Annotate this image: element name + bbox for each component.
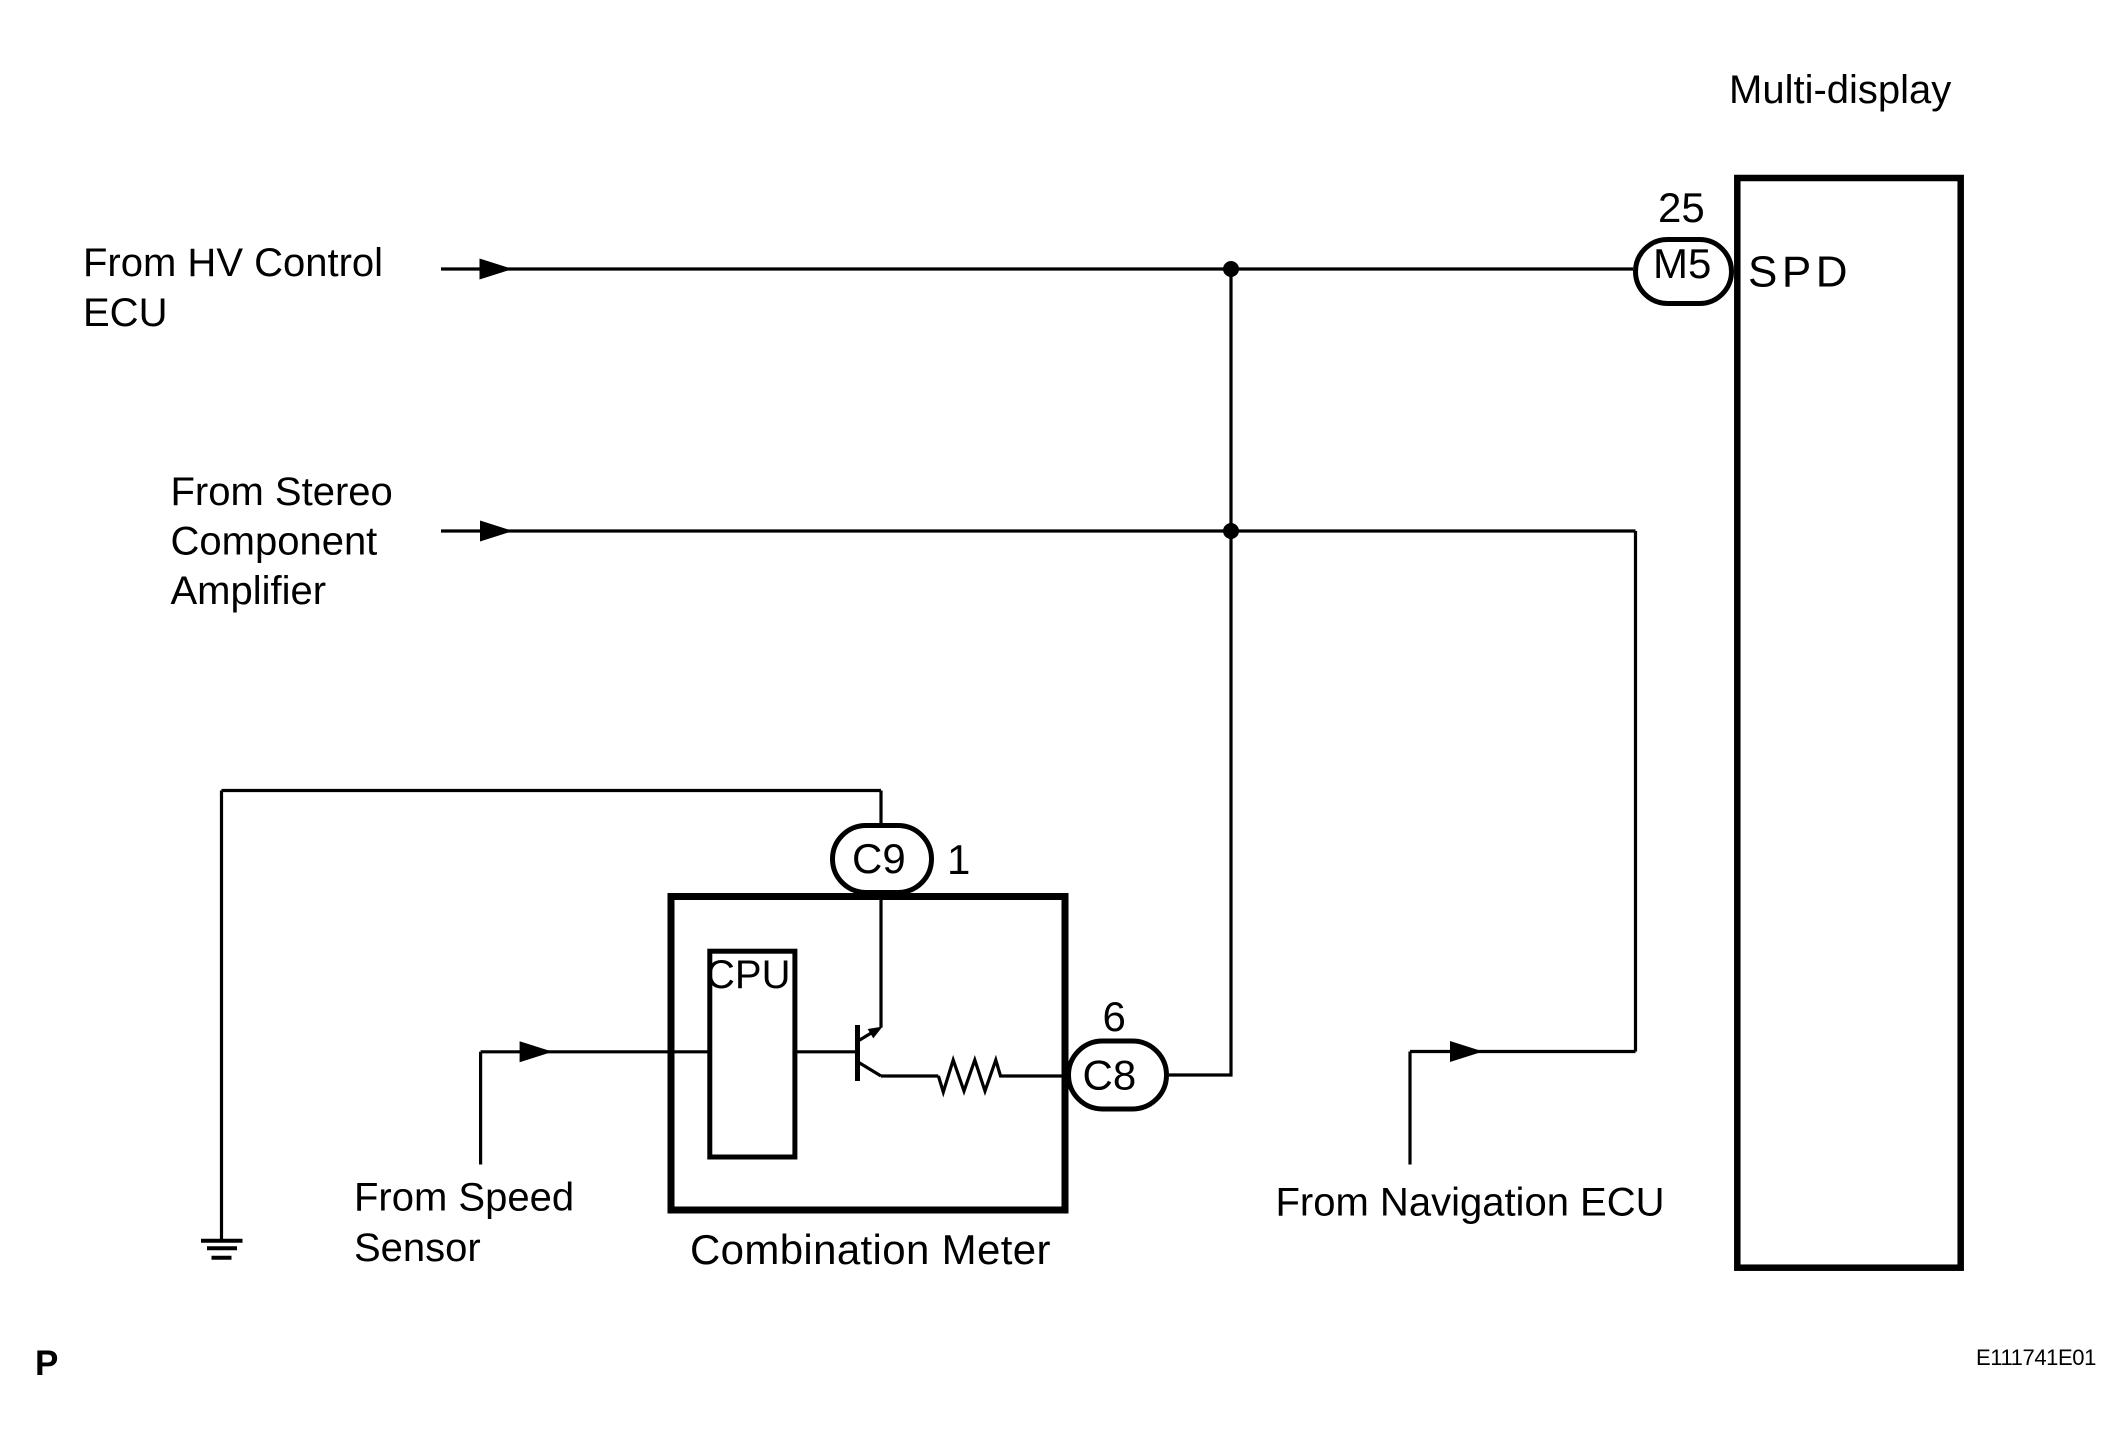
svg-text:From Stereo: From Stereo xyxy=(171,470,393,514)
svg-text:P: P xyxy=(35,1344,58,1383)
svg-text:6: 6 xyxy=(1103,993,1126,1040)
svg-text:M5: M5 xyxy=(1653,240,1711,287)
svg-text:Sensor: Sensor xyxy=(354,1226,481,1270)
svg-text:Multi-display: Multi-display xyxy=(1729,68,1951,112)
svg-text:From HV Control: From HV Control xyxy=(83,241,383,285)
svg-text:From Navigation ECU: From Navigation ECU xyxy=(1276,1181,1665,1225)
svg-text:25: 25 xyxy=(1658,184,1705,231)
svg-text:From Speed: From Speed xyxy=(354,1176,574,1220)
svg-text:E111741E01: E111741E01 xyxy=(1976,1345,2096,1370)
svg-text:Amplifier: Amplifier xyxy=(171,569,327,613)
svg-text:Component: Component xyxy=(171,520,378,564)
svg-text:C8: C8 xyxy=(1083,1052,1137,1099)
svg-text:CPU: CPU xyxy=(706,953,790,997)
svg-text:ECU: ECU xyxy=(83,291,167,335)
svg-text:C9: C9 xyxy=(852,835,906,882)
svg-text:Combination Meter: Combination Meter xyxy=(690,1226,1051,1273)
svg-text:1: 1 xyxy=(947,836,970,883)
svg-text:SPD: SPD xyxy=(1748,248,1852,297)
